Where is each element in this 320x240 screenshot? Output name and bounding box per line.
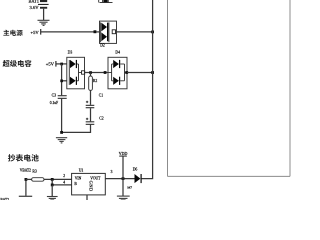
svg-text:VDD: VDD — [119, 151, 128, 156]
wire — [52, 179, 71, 185]
wire — [44, 178, 72, 180]
dual diode D4 — [106, 57, 127, 89]
wire VOUT — [105, 178, 134, 180]
wire stub — [62, 80, 67, 82]
wire GND pin — [86, 195, 88, 200]
label 超级电容 — [3, 60, 32, 67]
battery BAT2 (cut off at bottom) — [25, 179, 27, 195]
resistor R2 — [90, 73, 92, 77]
svg-text:GND: GND — [89, 181, 94, 192]
capacitor C3 — [58, 95, 67, 96]
capacitor C1 — [86, 101, 88, 103]
svg-text:C2: C2 — [99, 116, 104, 120]
svg-text:BAT2: BAT2 — [0, 198, 9, 200]
junction — [125, 71, 128, 74]
ground (cut off at bottom) — [47, 197, 58, 201]
junction — [60, 63, 63, 66]
svg-text:BAT1: BAT1 — [29, 0, 40, 4]
wire — [116, 31, 153, 33]
svg-text:4: 4 — [63, 180, 65, 184]
ground (cut off at bottom) — [117, 196, 130, 200]
wire net column — [61, 64, 63, 95]
svg-text:2: 2 — [63, 174, 65, 178]
wire — [56, 63, 67, 65]
svg-text:B: B — [74, 182, 77, 186]
pin pad — [94, 30, 97, 33]
junction — [25, 178, 28, 181]
svg-text:+5V: +5V — [46, 62, 55, 67]
capacitor C2 — [86, 118, 88, 120]
wire — [43, 9, 45, 20]
junction — [151, 31, 154, 34]
junction — [89, 71, 92, 74]
wire — [90, 108, 92, 121]
label 主电源 — [3, 30, 22, 36]
svg-text:C3: C3 — [52, 93, 57, 97]
junction — [60, 131, 63, 134]
wire — [122, 179, 124, 196]
svg-text:D6: D6 — [133, 168, 138, 172]
wire — [41, 31, 94, 33]
ground — [56, 138, 67, 143]
svg-text:VBAT2: VBAT2 — [20, 169, 31, 173]
wire net column (power OR output) — [142, 0, 153, 179]
svg-text:U1: U1 — [79, 168, 84, 172]
diode D6 — [135, 174, 141, 183]
svg-text:D3: D3 — [68, 51, 73, 55]
svg-text:C1: C1 — [99, 94, 104, 98]
junction — [122, 177, 125, 180]
svg-text:M7: M7 — [127, 185, 132, 189]
wire — [127, 72, 153, 74]
junction — [151, 71, 154, 74]
module block (right, cut off) — [168, 0, 291, 176]
dual diode D1 (cut off at top edge) — [100, 2, 113, 4]
svg-text:D4: D4 — [115, 51, 120, 55]
svg-text:+5V: +5V — [31, 30, 40, 35]
svg-text:R3: R3 — [32, 170, 37, 174]
wire — [85, 72, 105, 74]
svg-text:0.1uF: 0.1uF — [50, 101, 58, 105]
junction — [51, 178, 54, 181]
wire — [51, 185, 53, 196]
wire — [96, 31, 99, 33]
wire — [62, 125, 91, 133]
svg-text:D2: D2 — [100, 44, 105, 48]
junction — [51, 184, 54, 187]
svg-text:3.6V: 3.6V — [30, 5, 40, 10]
resistor R3 — [26, 178, 32, 180]
battery BAT1 — [38, 0, 49, 9]
regulator U1 — [72, 173, 106, 195]
pin pad — [104, 71, 107, 74]
dual diode D3 — [67, 57, 85, 89]
label 抄表电池 — [8, 154, 39, 161]
svg-text:R2: R2 — [93, 79, 98, 83]
junction — [60, 80, 63, 83]
ground — [38, 20, 50, 25]
svg-text:VIN: VIN — [75, 176, 82, 180]
dual diode D2 — [100, 21, 117, 43]
svg-text:3: 3 — [111, 170, 113, 174]
